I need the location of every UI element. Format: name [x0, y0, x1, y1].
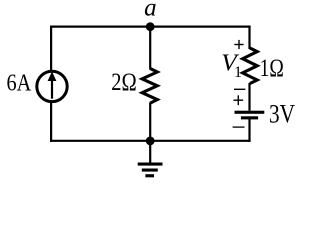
svg-text:2Ω: 2Ω	[111, 69, 137, 96]
ground bar 1	[138, 163, 163, 166]
wire middle upper (node a to 2-ohm resistor)	[149, 27, 151, 70]
svg-text:6A: 6A	[7, 70, 32, 97]
svg-text:3V: 3V	[269, 99, 295, 128]
battery V2 3V bottom plate (short, negative)	[241, 116, 258, 119]
wire top (node a rail)	[50, 26, 251, 28]
ground stem	[149, 141, 151, 163]
ground bar 3	[145, 174, 154, 177]
wire right middle (1-ohm resistor to battery top plate)	[248, 83, 250, 111]
svg-text:1Ω: 1Ω	[260, 55, 284, 82]
minus sign of battery	[233, 126, 245, 128]
wire middle lower (2-ohm resistor to bottom junction)	[149, 103, 151, 142]
current source I1 6A (circle with up arrow)	[37, 71, 67, 101]
svg-text:1: 1	[234, 64, 242, 81]
bottom junction dot	[146, 137, 155, 146]
resistor R2 1ohm (zigzag)	[243, 48, 258, 84]
ground bar 2	[142, 169, 158, 172]
wire right upper (top corner to 1-ohm resistor)	[248, 26, 250, 50]
svg-text:a: a	[144, 0, 157, 21]
node a dot	[146, 22, 155, 31]
wire left upper	[50, 26, 52, 71]
battery V2 3V top plate (long, positive)	[235, 111, 265, 114]
wire left lower	[50, 103, 52, 142]
resistor R1 2ohm (zigzag)	[142, 69, 157, 104]
wire bottom rail	[50, 140, 251, 142]
plus sign of V1	[234, 40, 243, 49]
minus sign of V1	[234, 88, 245, 90]
plus sign of battery	[233, 95, 243, 105]
wire right lower (battery bottom plate to bottom corner)	[248, 119, 250, 142]
